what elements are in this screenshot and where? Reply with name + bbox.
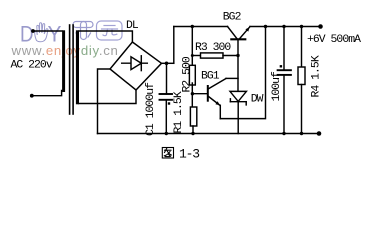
caption 图 glyph — [162, 148, 173, 159]
resistor R3 — [201, 53, 224, 58]
node R2 top — [191, 25, 194, 28]
svg-text:AC 220v: AC 220v — [11, 60, 53, 72]
wire R4 to bottom rail — [301, 85, 303, 134]
transistor BG1 emitter lead — [209, 97, 220, 106]
transformer primary winding bar — [62, 30, 65, 92]
output terminal plus — [318, 24, 323, 29]
wire zener to bottom rail — [237, 102, 239, 134]
wire junction down to C1 — [166, 63, 168, 94]
watermark hand glyph — [35, 23, 48, 42]
svg-text:1-3: 1-3 — [179, 147, 199, 162]
wire R3 right — [223, 55, 238, 57]
node C1 bottom — [165, 132, 168, 135]
C1 polarity mark — [168, 102, 170, 104]
svg-text:BG2: BG2 — [223, 12, 242, 24]
transformer secondary winding bar — [76, 30, 79, 104]
node R3 branch — [191, 54, 194, 57]
wire R3 left — [192, 55, 200, 57]
capacitor C1 plates — [160, 93, 173, 95]
transformer core line 1 — [69, 25, 71, 114]
svg-text:C1 1000uf: C1 1000uf — [145, 82, 157, 136]
bridge rectifier DL diamond — [110, 42, 162, 90]
wire feedback to rail — [220, 27, 265, 119]
bridge diode symbol line — [122, 62, 148, 64]
resistor R2 — [189, 65, 195, 85]
wire AC bottom to primary — [32, 91, 62, 96]
node C2 top — [282, 25, 285, 28]
wire rail to C2 — [283, 27, 285, 71]
svg-text:BG1: BG1 — [201, 71, 220, 83]
node divider junction — [191, 92, 194, 95]
C2 polarity mark — [280, 65, 282, 67]
svg-text:100uf: 100uf — [271, 71, 283, 102]
resistor R1 — [190, 107, 196, 126]
wire rail to R4 — [301, 27, 303, 68]
top rail left segment — [174, 26, 228, 28]
wire BG1 base — [192, 93, 207, 95]
svg-text:DW: DW — [251, 93, 264, 105]
node C1 top junction — [165, 62, 169, 66]
wire C1 to bottom rail — [165, 100, 167, 134]
svg-text:R4 1.5K: R4 1.5K — [311, 55, 323, 97]
node R4 top — [300, 25, 303, 28]
node C2 bottom — [282, 132, 285, 135]
resistor R4 — [298, 67, 305, 85]
wire BG2 base down to zener — [237, 39, 239, 101]
wire BG1 emitter down — [219, 105, 221, 118]
transistor BG1 collector lead — [209, 79, 227, 89]
transistor BG1 base bar — [207, 86, 209, 101]
wire R1 to bottom rail — [192, 126, 194, 134]
node R4 bottom — [300, 132, 303, 135]
wire rail down to R2 — [191, 27, 193, 66]
watermark 园 (rounded box with 元) — [97, 21, 123, 40]
output terminal minus — [317, 131, 322, 136]
bridge diode cathode bar — [140, 56, 142, 71]
wire secondary top to bridge — [79, 31, 132, 42]
bottom rail — [98, 133, 320, 135]
wire R2 to R1 — [191, 83, 193, 107]
wire C2 to bottom rail — [283, 75, 285, 134]
top rail right segment — [250, 26, 321, 28]
transistor BG2 base bar — [231, 38, 245, 40]
zener DW bar right tip — [245, 102, 247, 105]
transistor BG2 emitter arrow — [245, 27, 249, 31]
watermark 乐 (stylized outline) — [73, 22, 93, 40]
svg-text:+6V 500mA: +6V 500mA — [307, 34, 361, 46]
wire right vertex jog — [162, 62, 174, 64]
zener DW cathode bar — [230, 101, 246, 103]
wire secondary bottom to bridge bottom vertex — [79, 90, 136, 104]
wire bridge plus vertical from rail — [173, 27, 175, 64]
transistor BG1 emitter arrow — [215, 101, 220, 105]
wire BG1 collector to base column — [226, 77, 238, 79]
node base R3 junction — [236, 54, 239, 57]
wire AC top to primary — [33, 30, 62, 32]
zener DW triangle — [230, 91, 246, 101]
transistor BG2 collector lead — [228, 27, 238, 39]
AC terminal bottom — [30, 94, 34, 98]
node feedback top — [264, 25, 267, 28]
watermark logo DIY (outline letters) — [20, 22, 62, 47]
svg-text:R1 1.5K: R1 1.5K — [173, 91, 185, 133]
AC terminal top — [31, 29, 35, 33]
capacitor C2 plates — [278, 69, 291, 71]
node R1 bottom — [191, 132, 194, 135]
transistor BG2 emitter lead — [240, 27, 251, 39]
zener DW bar left tip — [229, 99, 231, 102]
svg-text:DL: DL — [126, 20, 139, 32]
wire bridge left vertex to minus line — [98, 69, 111, 134]
bridge diode triangle — [131, 57, 141, 70]
transformer core line 2 — [72, 25, 74, 114]
